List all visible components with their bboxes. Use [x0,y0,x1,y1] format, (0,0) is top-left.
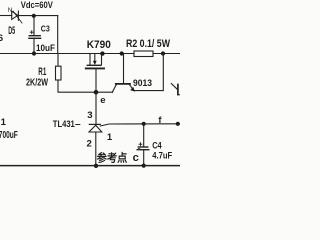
wire node e to 9013 [96,91,113,93]
svg-text:700uF: 700uF [0,130,18,141]
svg-text:9013: 9013 [133,78,152,89]
svg-text:参考点: 参考点 [96,151,128,165]
svg-text:6: 6 [0,32,3,43]
junction dot 9013 base on rail [120,51,124,55]
wire TL431 ref to f rail [100,124,180,126]
svg-text:R2 0.1/ 5W: R2 0.1/ 5W [126,38,170,50]
svg-text:e: e [100,95,105,106]
junction dot right of R2 on rail [161,51,165,55]
TL431 anode lead down [95,132,97,166]
resistor R1 body [56,66,62,80]
junction dot C4 bottom on ground rail [142,164,146,168]
transistor Q1 9013 base bar [116,83,130,85]
MOSFET K790 substrate arrow [93,54,97,66]
capacitor C3 bottom lead [33,38,35,53]
node e junction dot [94,90,99,95]
junction dot MOSFET drain on rail [100,51,104,55]
svg-text:1: 1 [107,132,113,143]
transistor Q1 9013 left lead [112,85,116,93]
capacitor C4 top lead [143,124,145,147]
TL431 cathode bar [89,123,100,125]
svg-text:D5: D5 [8,25,15,37]
MOSFET K790 left stub [89,54,91,65]
svg-text:3: 3 [87,110,92,121]
transistor Q1 9013 emitter with arrow [130,85,136,92]
diode D5 [12,11,22,23]
svg-text:4.7uF: 4.7uF [152,149,172,160]
TL431 tick mark left of cathode bar [76,124,80,126]
node A junction dot (Vdc node) [32,14,36,18]
MOSFET K790 gate bar [86,67,104,69]
junction dot C3 to mid rail [32,51,36,55]
wire node A down-corner to mid rail [57,16,59,54]
capacitor C3 plates [29,36,41,39]
wire mid rail [0,53,180,55]
svg-text:C3: C3 [41,24,50,34]
capacitor C3 top lead [33,16,35,35]
svg-text:1: 1 [1,117,7,128]
svg-text:c: c [133,152,139,164]
MOSFET K790 channel bar [87,64,101,66]
resistor R1 bottom lead [58,80,96,92]
svg-text:N: N [8,7,13,14]
svg-text:10uF: 10uF [36,43,55,54]
capacitor C4 polarity plus [139,143,142,146]
capacitor C4 plates [137,147,149,150]
junction dot C4 top on f rail [142,122,146,126]
svg-text:K790: K790 [87,39,111,51]
capacitor C3 polarity plus [30,31,33,34]
svg-text:Vdc=60V: Vdc=60V [21,0,53,10]
svg-text:R1: R1 [38,66,46,78]
wire D5 cathode to node A [18,15,57,17]
resistor R2 body [134,51,153,57]
transistor Q2 cut at right edge: base diag [171,84,177,90]
transistor Q1 9013 collector lead [123,54,125,84]
svg-text:2: 2 [87,138,92,149]
capacitor C4 bottom lead [143,150,145,166]
junction dot TL431 anode on ground rail [94,164,98,168]
resistor R1 top lead [57,54,59,67]
stray mark above node c [138,148,140,149]
transistor Q2 cut at right edge: bar [177,85,179,95]
svg-text:TL431: TL431 [53,119,76,130]
wire ground rail [0,165,180,167]
wire 9013 emitter to right vertical [134,54,163,91]
MOSFET K790 gate lead down to node e and TL431 [95,69,97,124]
TL431 anode triangle [89,125,102,132]
transistor Q2 cut at right edge: foot [178,93,180,96]
junction dot f rail right edge [176,122,180,126]
wire input to D5 anode [0,15,12,17]
MOSFET K790 right stub [101,54,103,65]
svg-text:2K/2W: 2K/2W [26,78,48,89]
